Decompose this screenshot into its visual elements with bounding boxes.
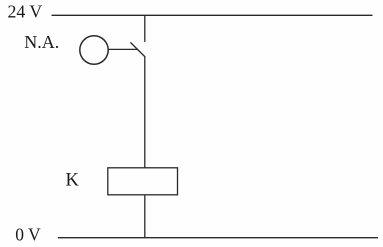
svg-text:N.A.: N.A. [24,32,59,52]
svg-text:0 V: 0 V [15,225,41,245]
svg-text:K: K [66,171,80,191]
svg-text:24 V: 24 V [8,2,43,22]
